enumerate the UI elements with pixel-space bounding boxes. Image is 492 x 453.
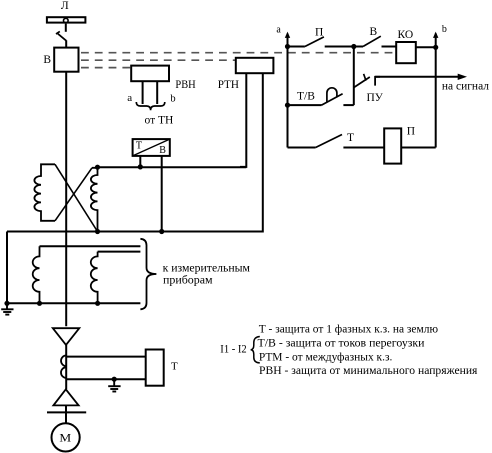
label B in box bbox=[159, 145, 166, 156]
cable CT loops bbox=[61, 355, 66, 378]
contact ПУ blade bbox=[354, 77, 370, 88]
busbar box with circle bbox=[47, 17, 86, 23]
svg-text:а: а bbox=[127, 92, 132, 104]
junction right coil bottom bbox=[95, 301, 100, 306]
breaker B box bbox=[54, 48, 78, 72]
junction a row2 bbox=[285, 103, 290, 108]
svg-text:Т - защита от 1 фазных к.з. на: Т - защита от 1 фазных к.з. на землю bbox=[259, 324, 439, 336]
latch symbol bbox=[327, 88, 337, 102]
svg-text:Т: Т bbox=[136, 141, 142, 152]
wire disconnector to breaker bbox=[65, 40, 67, 47]
wire CT secondary bottom bbox=[7, 231, 263, 233]
wire B junction down to ПУ bbox=[353, 47, 355, 106]
label KO bbox=[398, 29, 414, 41]
CT right winding bbox=[91, 168, 98, 232]
svg-text:П: П bbox=[407, 126, 415, 138]
svg-text:на сигнал: на сигнал bbox=[442, 81, 489, 93]
svg-text:Л: Л bbox=[61, 0, 69, 12]
motor M bbox=[52, 423, 80, 451]
wire na signal with arrow bbox=[375, 74, 467, 80]
label PBH bbox=[175, 77, 196, 91]
contact Т wire right bbox=[343, 147, 384, 149]
PTH left pin with corner bbox=[240, 73, 246, 167]
svg-text:а: а bbox=[276, 25, 281, 36]
contact Т/В wire left bbox=[288, 104, 322, 106]
svg-text:В: В bbox=[159, 145, 166, 156]
ПУ fixed terminal bbox=[375, 77, 380, 86]
contact B wire left bbox=[354, 46, 363, 48]
wire loops to T box top bbox=[66, 356, 146, 358]
contact Т/В blade bbox=[322, 94, 343, 105]
label на сигнал bbox=[442, 81, 489, 93]
label a bbox=[127, 92, 132, 104]
CT cross wire A bbox=[55, 164, 98, 231]
ПУ blade tick bbox=[364, 74, 366, 81]
label a bbox=[276, 25, 281, 36]
legend line 4 bbox=[259, 365, 478, 377]
junction CT right winding bottom bbox=[95, 229, 100, 234]
junction ground 2 bbox=[112, 377, 117, 382]
primary feeder wire bbox=[65, 72, 67, 327]
CT cross wire B bbox=[55, 168, 92, 221]
contact Т wire left bbox=[288, 147, 316, 149]
svg-text:приборам: приборам bbox=[163, 273, 213, 287]
label b bbox=[442, 24, 447, 35]
contact П blade bbox=[305, 37, 324, 47]
primary wire through loops bbox=[65, 345, 67, 389]
disconnector switch bbox=[56, 31, 66, 40]
svg-text:Т: Т bbox=[171, 360, 178, 372]
contact Т blade bbox=[316, 135, 342, 148]
measuring wire bottom bbox=[7, 302, 140, 304]
junction T/B right pin bbox=[159, 229, 164, 234]
svg-text:b: b bbox=[442, 24, 447, 35]
junction T/B left pin bbox=[138, 164, 143, 169]
legend line 1 bbox=[259, 324, 439, 336]
label B bbox=[370, 26, 378, 38]
contact П wire left bbox=[288, 46, 305, 48]
svg-text:I1 - I2: I1 - I2 bbox=[220, 341, 246, 355]
node b arrow bbox=[433, 32, 438, 148]
svg-text:В: В bbox=[43, 54, 51, 66]
label ПУ bbox=[367, 92, 384, 104]
contact B blade bbox=[363, 36, 381, 46]
junction ground wire bbox=[4, 301, 9, 306]
label П bbox=[315, 27, 323, 39]
termination bar bbox=[47, 411, 86, 413]
svg-text:Т/В - защита от токов перегоуз: Т/В - защита от токов перегоузки bbox=[258, 338, 425, 350]
PBH pin b bbox=[156, 81, 158, 104]
svg-text:ПУ: ПУ bbox=[367, 92, 384, 104]
dashed link row 1 bbox=[81, 52, 393, 54]
dashed link row 3 bbox=[81, 67, 131, 69]
junction row1 B bbox=[351, 44, 356, 49]
svg-text:Т/В: Т/В bbox=[297, 90, 315, 102]
underbrace от ТН bbox=[136, 102, 165, 110]
cable termination triangle 1 bbox=[53, 328, 80, 345]
measuring wire second bbox=[98, 251, 141, 253]
label к измерительным приборам bbox=[163, 260, 251, 286]
wire busbar to disconnector bbox=[65, 24, 67, 32]
brace to instruments bbox=[140, 239, 156, 309]
wire blade to KO bbox=[382, 46, 397, 48]
relay PBH box bbox=[131, 66, 169, 82]
PTH right pin with corner bbox=[256, 73, 263, 231]
contact Т/В wire right bbox=[343, 104, 353, 106]
label M bbox=[59, 430, 71, 444]
label Т bbox=[347, 132, 354, 144]
measuring coil left bbox=[33, 246, 40, 303]
node Л (feeder label) bbox=[61, 0, 69, 12]
wire loops to T box bottom bbox=[66, 378, 146, 380]
label B bbox=[43, 54, 51, 66]
ground 1 bbox=[1, 303, 13, 314]
contact П wire right bbox=[325, 46, 354, 48]
wire triangle2 to motor bbox=[65, 405, 67, 423]
transformer T box bbox=[146, 350, 164, 386]
T/B left pin bbox=[139, 156, 141, 167]
svg-text:РВН: РВН bbox=[175, 77, 196, 91]
label П bbox=[407, 126, 415, 138]
legend line 2 bbox=[258, 338, 425, 350]
label T in box bbox=[136, 141, 142, 152]
dashed link row 2 bbox=[81, 59, 235, 61]
svg-text:от ТН: от ТН bbox=[145, 115, 174, 127]
label от ТН bbox=[145, 115, 174, 127]
relay T/B box bbox=[133, 139, 170, 156]
measuring wire top bbox=[40, 245, 141, 247]
PBH pin a bbox=[142, 81, 144, 104]
svg-text:Т: Т bbox=[347, 132, 354, 144]
junction a row1 bbox=[285, 44, 290, 49]
legend brace bbox=[251, 337, 260, 363]
junction left coil bottom bbox=[37, 301, 42, 306]
svg-text:РТН: РТН bbox=[218, 77, 239, 91]
relay П box bbox=[384, 128, 401, 163]
cable termination triangle 2 bbox=[53, 389, 78, 405]
relay KO box bbox=[396, 42, 416, 63]
relay PTH box bbox=[236, 58, 274, 73]
wire П box to b bbox=[401, 147, 436, 149]
svg-text:П: П bbox=[315, 27, 323, 39]
svg-text:b: b bbox=[170, 93, 175, 104]
svg-text:М: М bbox=[59, 430, 71, 444]
label PTH bbox=[218, 77, 239, 91]
svg-text:КО: КО bbox=[398, 29, 414, 41]
wire left drop to ground bbox=[6, 232, 8, 304]
svg-text:В: В bbox=[370, 26, 378, 38]
label T bbox=[171, 360, 178, 372]
measuring coil right bbox=[91, 252, 98, 304]
node a arrow bbox=[285, 32, 290, 148]
T/B right pin bbox=[161, 156, 163, 232]
label Т/В bbox=[297, 90, 315, 102]
junction CT right winding top bbox=[95, 165, 100, 170]
wire KO to b bbox=[416, 46, 436, 48]
label b bbox=[170, 93, 175, 104]
wire CT secondary top bbox=[98, 166, 247, 168]
label I1 - I2 bbox=[220, 341, 246, 355]
junction b row1 bbox=[433, 45, 438, 50]
legend line 3 bbox=[259, 351, 393, 363]
svg-text:РВН - защита от минимального н: РВН - защита от минимального напряжения bbox=[259, 365, 478, 377]
CT left winding bbox=[34, 164, 55, 221]
ground 2 bbox=[108, 379, 120, 391]
svg-text:РТМ - от междуфазных к.з.: РТМ - от междуфазных к.з. bbox=[259, 351, 393, 363]
